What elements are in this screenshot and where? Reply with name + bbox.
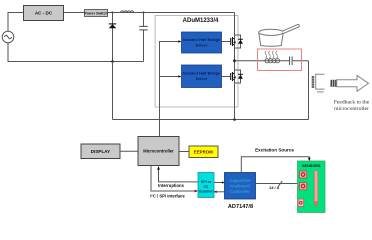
isolated half bridge driver B (182, 65, 222, 88)
wire microcontroller to EEPROM (179, 151, 189, 153)
MOSFET Q1 (231, 37, 236, 46)
resonant capacitor C2 (290, 57, 293, 66)
top rail wire (108, 12, 235, 14)
induction coil L2 (265, 59, 280, 63)
wire isolation to AD7147 lower (214, 191, 225, 193)
feedback arrow tail block (331, 80, 337, 87)
inductor L1 (121, 11, 134, 13)
heat waves (265, 51, 277, 58)
svg-text:Isolated Half Bridge: Isolated Half Bridge (183, 70, 221, 75)
wire AC source to AC-DC box (8, 13, 24, 32)
feedback arrow (337, 76, 369, 92)
svg-text:AD7147/8: AD7147/8 (228, 204, 253, 210)
svg-text:Capacitive: Capacitive (230, 178, 252, 183)
svg-text:Driver: Driver (196, 76, 208, 81)
svg-text:Keyboard: Keyboard (230, 183, 250, 188)
slider sensor (314, 171, 318, 206)
SENSORS panel (298, 161, 326, 213)
capacitor C1 (139, 13, 147, 62)
current sensor bracket (316, 74, 325, 92)
svg-text:microcontroller: microcontroller (334, 106, 369, 112)
drop wire to bottom rail (112, 62, 114, 120)
svg-text:Controller: Controller (230, 189, 250, 194)
Microcontroller block (138, 137, 179, 166)
riser wire from tank to bottom rail (308, 61, 310, 120)
PWM bus from microcontroller (160, 42, 181, 137)
svg-text:DISPLAY: DISPLAY (91, 149, 111, 154)
body diode Q1 (235, 35, 244, 48)
svg-text:Isolated Half Bridge: Isolated Half Bridge (183, 37, 221, 42)
isolated half bridge driver A (182, 32, 222, 53)
sensor button 3 (298, 199, 304, 207)
gate wire Q2 (222, 76, 231, 78)
node at capacitor tap (143, 12, 145, 14)
svg-text:Isolation: Isolation (199, 190, 214, 194)
junction bottom rail / MOSFET source (233, 118, 236, 121)
current sensor core (312, 76, 315, 88)
wire AC-DC to Power Switch (64, 12, 85, 14)
junction mid rail / drop (111, 60, 114, 63)
svg-text:ADuM1233/4: ADuM1233/4 (183, 18, 219, 24)
svg-text:Interruptions: Interruptions (158, 183, 184, 188)
DISPLAY block (81, 144, 120, 159)
MOSFET Q2 (231, 72, 236, 81)
arrow into microcontroller (157, 166, 160, 170)
sensor bus wire (256, 183, 298, 185)
svg-text:Microcontroller: Microcontroller (143, 149, 174, 154)
bottom return rail (113, 119, 309, 121)
svg-text:I²C / SPI Interface: I²C / SPI Interface (150, 193, 185, 198)
gate wire Q1 (222, 41, 231, 43)
node at diode tap (112, 12, 114, 14)
svg-text:Excitation Source: Excitation Source (255, 148, 294, 153)
cooking pot (259, 25, 300, 47)
svg-text:SPI or: SPI or (201, 180, 212, 184)
AC - DC converter block (24, 6, 64, 21)
svg-text:I²C: I²C (204, 185, 209, 189)
bus slash (278, 181, 282, 186)
wire midpoint to tank (235, 60, 290, 62)
SPI or I2C isolation block (198, 173, 214, 198)
AC source V1 (2, 31, 14, 43)
wire display to microcontroller (120, 150, 138, 152)
arrow into isolation (195, 190, 198, 193)
svg-text:SENSORS: SENSORS (302, 164, 321, 168)
arrow into driver A (178, 40, 181, 43)
body diode Q2 (235, 70, 244, 83)
mid return rail (8, 43, 144, 62)
diode D1 (109, 13, 117, 62)
resonant tank red box (258, 49, 302, 71)
ADuM1233/4 outer box U1 (155, 16, 238, 107)
wire isolation to AD7147 upper (214, 182, 225, 184)
sensor button 1 (300, 171, 307, 178)
arrow into driver B (178, 75, 181, 78)
svg-text:Power Switch: Power Switch (84, 12, 107, 16)
EEPROM block (189, 146, 218, 158)
svg-text:14 / 8: 14 / 8 (269, 185, 280, 190)
svg-text:AC - DC: AC - DC (35, 11, 53, 16)
midpoint node (233, 59, 236, 62)
half-bridge chain wire (234, 13, 236, 120)
svg-text:EEPROM: EEPROM (194, 150, 213, 155)
sensor button 2 (300, 183, 307, 190)
I2C / SPI wire (151, 166, 195, 192)
svg-text:Driver: Driver (196, 42, 208, 47)
Power Switch block (84, 10, 107, 17)
excitation source wire (241, 157, 309, 173)
svg-text:Feedback to the: Feedback to the (334, 100, 370, 106)
interruptions wire (159, 167, 199, 182)
AD7147 capacitive keyboard controller (225, 173, 256, 200)
